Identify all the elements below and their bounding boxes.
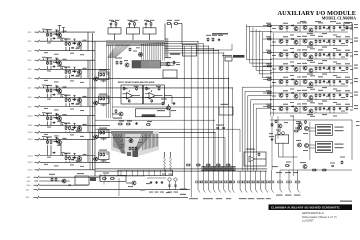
- resistor R208: [294, 130, 299, 132]
- wire: [103, 182, 105, 185]
- label: [101, 104, 107, 105]
- wire: [165, 41, 199, 43]
- label: [350, 42, 353, 43]
- wire: [46, 29, 48, 31]
- bus sweep pin: [118, 134, 120, 149]
- label: [63, 138, 67, 139]
- bus sweep pin: [151, 134, 153, 148]
- label: [269, 136, 274, 137]
- transistor Q125: [279, 39, 283, 43]
- wire: [270, 112, 278, 114]
- wire: [218, 171, 220, 181]
- transistor Q155: [278, 124, 282, 128]
- label: [283, 23, 288, 24]
- label: [63, 31, 67, 32]
- wire: [50, 38, 52, 41]
- resistor R156: [216, 164, 221, 166]
- wire: [40, 106, 95, 108]
- label: [149, 192, 153, 193]
- label regulator part: [222, 55, 232, 56]
- label: [70, 164, 74, 165]
- connector pin label: [189, 198, 198, 199]
- box: [143, 28, 156, 34]
- wire: [161, 65, 175, 67]
- wire: [165, 45, 209, 47]
- label: [333, 89, 337, 90]
- wire: [95, 119, 215, 121]
- label: [307, 60, 313, 61]
- label: [307, 101, 313, 102]
- transistor Q145: [279, 107, 283, 111]
- label: [63, 86, 67, 87]
- wire: [80, 45, 82, 50]
- label: [133, 51, 137, 52]
- label: [326, 82, 330, 83]
- svg-text:J2-2: J2-2: [28, 41, 33, 43]
- transistor Q106: [78, 98, 82, 102]
- junction: [79, 128, 80, 129]
- label: [354, 65, 358, 66]
- wire: [333, 84, 335, 86]
- label: [115, 20, 119, 21]
- resistor R101: [47, 33, 49, 37]
- label: [341, 84, 345, 85]
- label: [246, 149, 255, 150]
- label: [350, 83, 353, 84]
- bus sweep pin: [144, 134, 146, 150]
- wire: [309, 130, 316, 132]
- label: [336, 104, 341, 105]
- capacitor C101: [55, 33, 57, 36]
- resistor R102: [50, 33, 52, 37]
- label: [266, 50, 271, 51]
- resistor R150: [132, 147, 134, 151]
- bus sweep pin: [117, 134, 119, 149]
- wire: [40, 124, 110, 126]
- svg-text:J2-15: J2-15: [28, 162, 34, 164]
- box voltage regulator VR1: [183, 45, 197, 57]
- bus sweep wire: [135, 134, 144, 152]
- diode CR120: [331, 165, 334, 167]
- label: [345, 90, 350, 91]
- resistor R190: [267, 92, 272, 94]
- feedthrough capacitor C139: [196, 181, 201, 190]
- wire: [65, 75, 67, 78]
- wire: [170, 24, 172, 29]
- resistor R177: [346, 53, 348, 57]
- wire: [59, 116, 61, 117]
- label: [70, 134, 74, 135]
- wire: [247, 26, 273, 28]
- transistor Q103: [58, 61, 62, 65]
- label: [341, 111, 345, 112]
- label: [83, 124, 87, 125]
- switch contact: [38, 87, 40, 90]
- transistor Q132: [294, 54, 298, 58]
- bus fan wire: [114, 44, 129, 58]
- label: [124, 60, 128, 61]
- wire: [103, 80, 105, 83]
- bus drop wire: [162, 43, 164, 60]
- wire: [352, 24, 354, 108]
- wire: [58, 25, 61, 27]
- capacitor C129: [323, 80, 325, 83]
- capacitor C138: [271, 138, 273, 141]
- wire: [47, 113, 49, 115]
- junction: [65, 68, 68, 71]
- capacitor C121: [339, 40, 341, 43]
- label: [350, 96, 353, 97]
- capacitor C125: [328, 53, 330, 56]
- wire: [149, 34, 151, 40]
- wire: [62, 124, 64, 126]
- wire: [55, 57, 57, 59]
- bus fan wire: [113, 44, 127, 58]
- svg-text:J3-3: J3-3: [27, 185, 32, 187]
- RN1 pin: [152, 61, 154, 68]
- resistor R192: [315, 94, 317, 98]
- capacitor C120: [323, 40, 325, 43]
- junction: [65, 154, 68, 157]
- resistor R165: [346, 26, 348, 30]
- bus drop wire: [160, 43, 162, 60]
- wire: [59, 32, 61, 33]
- wire: [315, 84, 317, 86]
- wire: [288, 170, 290, 181]
- bus corner junction: [151, 43, 152, 44]
- label: [126, 137, 130, 138]
- transistor Q113: [94, 135, 98, 139]
- label: [350, 110, 353, 111]
- wire: [150, 26, 152, 28]
- wire: [123, 93, 127, 95]
- label: [302, 22, 307, 23]
- capacitor C119: [328, 26, 330, 29]
- wire: [50, 94, 52, 98]
- wire: [79, 125, 81, 126]
- wire: [47, 86, 49, 88]
- transistor Q156: [62, 179, 66, 183]
- label: [76, 47, 80, 48]
- resistor R127: [100, 153, 102, 157]
- label: [310, 89, 315, 90]
- wire: [40, 155, 95, 157]
- label: [44, 52, 48, 53]
- bus band wire: [106, 43, 165, 45]
- switch contact: [38, 138, 40, 141]
- label: [272, 42, 276, 43]
- bus sweep pin: [150, 134, 152, 148]
- label: [99, 128, 107, 129]
- bus corner junction: [141, 44, 142, 45]
- capacitor C102: [73, 42, 75, 45]
- label: [61, 94, 65, 95]
- wire: [256, 69, 272, 71]
- transistor Q154: [303, 165, 307, 169]
- label: [83, 68, 87, 69]
- label: [80, 54, 84, 55]
- wire: [73, 94, 75, 96]
- label: [76, 76, 80, 77]
- junction: [46, 31, 49, 34]
- transistor Q110: [78, 157, 82, 161]
- wire: [47, 94, 49, 98]
- label: [47, 99, 51, 100]
- resistor R153: [186, 164, 191, 166]
- junction: [46, 59, 49, 62]
- resistor R197: [286, 107, 288, 111]
- diode CR104: [71, 75, 74, 77]
- label: [302, 76, 307, 77]
- label: [330, 21, 336, 22]
- connector pin slash: [250, 190, 252, 193]
- wire: [79, 97, 81, 98]
- label: [333, 35, 337, 36]
- filter element: [120, 170, 122, 176]
- switch contact: [38, 96, 40, 99]
- label: [44, 108, 48, 109]
- wire: [87, 116, 89, 133]
- wire: [155, 95, 163, 97]
- wire: [55, 29, 57, 31]
- wire: [246, 25, 248, 60]
- label: [341, 97, 345, 98]
- transistor Q134: [303, 66, 307, 70]
- wire: [279, 156, 298, 158]
- label: [345, 63, 350, 64]
- wire: [73, 152, 75, 154]
- wire: [270, 119, 352, 121]
- resistor R107: [65, 70, 67, 74]
- resistor R174: [315, 53, 317, 57]
- junction: [95, 102, 96, 103]
- wire: [65, 161, 67, 162]
- label: [156, 86, 161, 87]
- op-amp U103: [249, 156, 255, 162]
- bus sweep wire: [136, 134, 148, 152]
- label: [307, 33, 313, 34]
- resistor R160: [267, 25, 272, 27]
- wire: [265, 171, 267, 181]
- feedthrough capacitor C140: [201, 181, 206, 190]
- transistor Q141: [279, 93, 283, 97]
- label: [83, 96, 87, 97]
- label: [76, 131, 80, 132]
- wire: [146, 21, 151, 23]
- label: [57, 121, 61, 122]
- wire: [164, 152, 166, 157]
- bus sweep pin: [113, 134, 115, 148]
- wire: [340, 85, 348, 87]
- label: [57, 38, 61, 39]
- RN1 pin: [153, 61, 155, 68]
- junction: [197, 40, 200, 43]
- resistor R166: [267, 38, 272, 40]
- label: [310, 102, 315, 103]
- connector pin slash: [198, 190, 200, 193]
- junction: [59, 63, 60, 64]
- wire: [218, 51, 220, 171]
- label: [64, 153, 71, 154]
- wire: [263, 106, 352, 108]
- wire: [46, 112, 48, 114]
- transistor Q111: [94, 77, 98, 81]
- filter element: [154, 170, 156, 176]
- wire: [278, 45, 340, 47]
- resistor R209: [51, 178, 53, 182]
- wire: [247, 59, 273, 61]
- label 5V REGULATOR: [212, 33, 228, 35]
- resistor R175: [319, 53, 321, 57]
- resistor R211: [102, 178, 107, 180]
- wire: [47, 137, 49, 139]
- label: [354, 95, 358, 96]
- wire: [95, 128, 240, 130]
- label: [72, 127, 77, 128]
- wire: [94, 42, 96, 177]
- label: [47, 127, 51, 128]
- resistor R173: [286, 53, 288, 57]
- bus left drop: [105, 45, 107, 118]
- label: [336, 77, 341, 78]
- resistor R109: [47, 89, 49, 93]
- bus tag: [233, 55, 244, 58]
- resistor R188: [333, 80, 335, 84]
- feedthrough capacitor C143: [216, 181, 221, 190]
- wire: [299, 53, 301, 60]
- connector pin slash: [203, 190, 205, 193]
- transistor Q117: [166, 62, 170, 66]
- connector pin slash: [224, 190, 226, 193]
- resistor R137: [173, 61, 175, 65]
- bus corner junction: [156, 43, 157, 44]
- connector pin label: [239, 198, 247, 199]
- wire: [259, 73, 272, 75]
- wire: [65, 103, 67, 106]
- connector pin slash: [232, 190, 234, 193]
- wire: [263, 79, 352, 81]
- resistor R122: [103, 73, 105, 77]
- bus sweep wire: [135, 134, 143, 152]
- switch contact: [38, 161, 40, 164]
- transistor Q107: [58, 117, 62, 121]
- wire: [55, 85, 57, 87]
- pin label: [165, 49, 169, 50]
- resistor R182: [333, 67, 335, 71]
- label: [266, 36, 271, 37]
- transistor Q102: [78, 42, 82, 46]
- label: [322, 60, 327, 61]
- wire: [69, 75, 71, 78]
- wire: [35, 68, 38, 70]
- wire: [351, 120, 353, 160]
- capacitor C133: [339, 94, 341, 97]
- IC U5 body: [90, 177, 96, 181]
- feedthrough capacitor C149: [248, 181, 253, 190]
- wire: [286, 44, 288, 46]
- label: [54, 135, 59, 136]
- capacitor C115: [135, 122, 137, 125]
- bus label fill: [203, 167, 234, 169]
- label: [307, 47, 313, 48]
- bus left drop: [107, 45, 109, 118]
- resistor R162: [315, 26, 317, 30]
- bus sweep pin: [155, 134, 157, 147]
- wire: [65, 152, 67, 154]
- resistor R194: [333, 94, 335, 98]
- wire: [213, 48, 215, 170]
- wire: [93, 158, 94, 160]
- label: [272, 96, 276, 97]
- wire: [253, 66, 272, 68]
- wire: [89, 60, 91, 170]
- svg-text:J2-4: J2-4: [28, 60, 33, 62]
- wire: [241, 87, 243, 171]
- label: [296, 121, 301, 122]
- bus sweep pin: [123, 134, 125, 148]
- svg-text:J2-8: J2-8: [28, 97, 33, 99]
- diode CR102: [71, 47, 74, 49]
- resistor R108: [69, 70, 71, 74]
- resistor R172: [267, 52, 272, 54]
- resistor R147: [126, 123, 131, 125]
- label: [290, 62, 294, 63]
- resistor R103: [65, 42, 67, 46]
- junction: [79, 44, 80, 45]
- label: [335, 144, 344, 145]
- wire: [315, 44, 317, 46]
- resistor R118: [50, 140, 52, 144]
- label: [128, 186, 133, 187]
- label: [266, 104, 271, 105]
- label: [354, 24, 358, 25]
- switch contact: [38, 131, 40, 134]
- label: [80, 166, 84, 167]
- wire: [69, 47, 71, 51]
- label: [64, 38, 71, 39]
- label: [54, 110, 59, 111]
- label: [66, 43, 70, 44]
- resistor R180: [271, 123, 273, 127]
- bus sweep pin: [121, 134, 123, 149]
- relay K1 contact: [317, 129, 331, 131]
- junction: [95, 136, 96, 137]
- bus sweep pin: [157, 134, 159, 147]
- transistor Q105: [58, 89, 62, 93]
- resistor R184: [267, 79, 272, 81]
- label: [333, 116, 337, 117]
- label: [101, 160, 107, 161]
- bus sweep pin: [122, 134, 124, 149]
- label: [42, 112, 46, 113]
- bus sweep pin: [153, 134, 155, 148]
- box bus label: [202, 166, 235, 170]
- wire: [145, 97, 149, 99]
- diode CR107: [53, 122, 56, 124]
- wire: [279, 170, 281, 181]
- wire: [65, 66, 67, 68]
- wire: [207, 171, 209, 181]
- connector pin slash: [289, 190, 291, 193]
- label: [57, 145, 61, 146]
- label: [119, 121, 124, 122]
- label +5V: [356, 121, 360, 122]
- transistor Q138: [303, 80, 307, 84]
- label: [54, 54, 59, 55]
- label: [99, 94, 107, 95]
- resistor R171: [346, 40, 348, 44]
- RN1 pin: [143, 61, 145, 68]
